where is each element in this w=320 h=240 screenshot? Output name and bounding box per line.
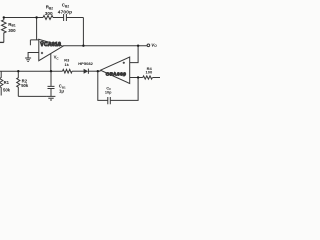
svg-text:300: 300	[8, 28, 16, 33]
wire CB1 to ground 2	[50, 89, 52, 97]
node dot R2 top	[17, 70, 19, 72]
svg-text:VO: VO	[151, 42, 157, 48]
resistor RB2	[43, 16, 53, 20]
minus sign U1	[41, 40, 43, 42]
node dot A left	[3, 16, 5, 18]
wire Cc branch	[98, 71, 108, 100]
wire bottom rail left	[18, 95, 46, 97]
wire output of U1	[63, 45, 147, 47]
resistor RB1	[2, 18, 7, 43]
resistor R3	[63, 69, 73, 73]
ground 2	[47, 96, 56, 100]
svg-text:300: 300	[45, 11, 53, 16]
svg-text:4700p: 4700p	[58, 9, 72, 15]
diode D1 HP5082	[84, 69, 89, 74]
wire non-inverting input	[28, 53, 39, 58]
svg-text:RB1: RB1	[8, 22, 16, 28]
wire diode to U2	[88, 70, 100, 72]
wire inverting input drop	[30, 18, 38, 46]
wire U2 minus input	[130, 77, 143, 79]
capacitor CB2	[64, 14, 67, 21]
svg-text:VC: VC	[54, 55, 60, 61]
wire top net (node A)	[4, 17, 43, 19]
wire Cc to R4 node	[111, 78, 139, 101]
terminal Vo	[147, 44, 150, 47]
svg-text:50k: 50k	[3, 87, 11, 92]
plus sign U1	[41, 52, 43, 54]
wire R4 to edge	[153, 77, 160, 79]
svg-text:HP5082: HP5082	[78, 61, 93, 66]
wire control net	[0, 70, 63, 72]
node dot A right	[35, 16, 37, 18]
wire RB2 to CB2	[53, 17, 63, 19]
svg-text:R1: R1	[4, 80, 10, 85]
capacitor Cc	[108, 97, 111, 104]
svg-text:RB2: RB2	[46, 5, 54, 11]
wire CB2 to feedback corner	[67, 17, 84, 19]
resistor R2	[17, 71, 20, 96]
wire U2 plus input to output net	[130, 46, 138, 63]
node dot VC-C1	[50, 70, 52, 72]
svg-text:10p: 10p	[105, 90, 112, 94]
op-amp U2 OPA660	[101, 57, 130, 84]
wire VC pin drop	[50, 54, 52, 72]
svg-text:VCA610: VCA610	[40, 42, 61, 48]
node dot R4	[137, 76, 139, 78]
node dot diode out	[97, 70, 99, 72]
svg-text:50k: 50k	[21, 83, 29, 88]
ground 1	[25, 58, 31, 62]
node dot output-feedback	[82, 45, 84, 47]
minus sign U2	[123, 75, 125, 77]
resistor R1	[0, 71, 3, 95]
plus sign U2	[123, 62, 125, 64]
svg-text:1μ: 1μ	[59, 89, 64, 94]
wire C1 branch	[50, 71, 52, 86]
op-amp U1 VCA610	[39, 39, 63, 60]
node dot output-U2	[137, 45, 139, 47]
svg-text:100: 100	[146, 70, 153, 75]
svg-text:CB2: CB2	[62, 3, 70, 9]
capacitor CB1	[48, 86, 55, 88]
wire input stub	[0, 41, 4, 43]
wire feedback vertical	[82, 18, 84, 46]
wire R3 to diode	[72, 70, 84, 72]
resistor R4	[143, 76, 153, 79]
